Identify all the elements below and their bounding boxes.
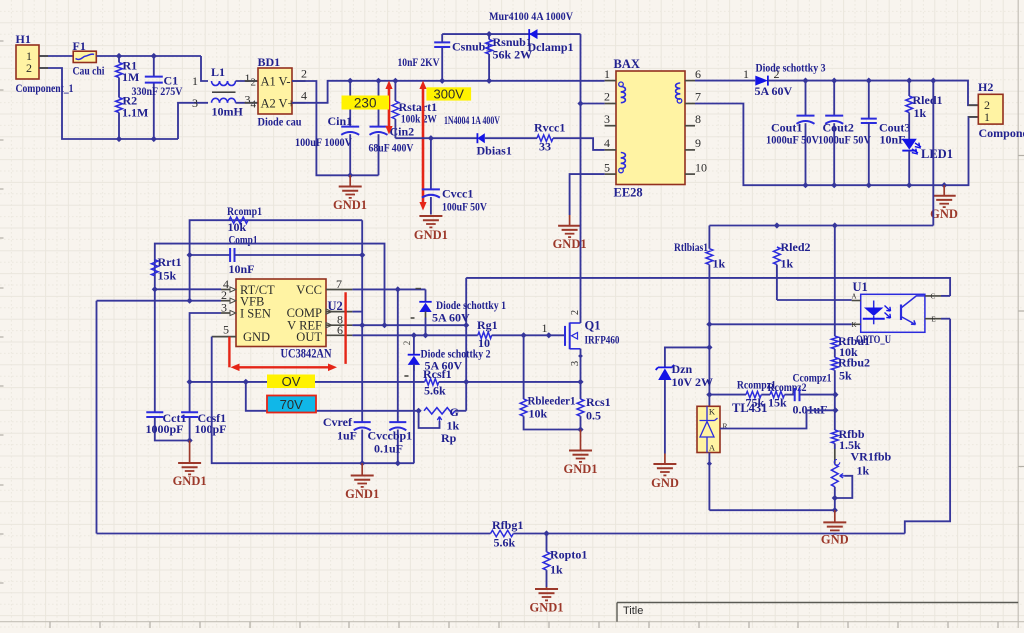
capacitor Comp1	[190, 254, 231, 256]
BAX secondary winding	[676, 83, 681, 88]
ic ground rail	[212, 337, 414, 464]
diode schottky 3	[755, 76, 768, 86]
ground GND at Dzn	[664, 454, 666, 465]
capacitor Cct1	[146, 411, 163, 413]
wire source to sense	[580, 349, 582, 382]
junction Dzn branch	[706, 344, 712, 350]
svg-text:56k 2W: 56k 2W	[493, 48, 533, 62]
svg-text:Cvccbp1: Cvccbp1	[368, 429, 413, 443]
junction snubber left	[439, 78, 445, 84]
red annotation vertical at GND pin	[228, 337, 230, 368]
resistor Rstart1	[394, 81, 396, 101]
capacitor Cin1	[349, 81, 351, 126]
svg-text:Rfbu2: Rfbu2	[838, 356, 870, 370]
wire H1 pin1 to fuse F1	[39, 55, 73, 57]
resistor Rfbg1	[491, 530, 514, 536]
svg-text:Ropto1: Ropto1	[550, 548, 587, 562]
svg-text:EE28: EE28	[614, 186, 643, 200]
svg-text:H1: H1	[16, 32, 31, 46]
svg-text:1uF: 1uF	[337, 429, 357, 443]
svg-text:230: 230	[354, 96, 377, 111]
svg-text:5: 5	[604, 161, 610, 175]
resistor Rbleeder1	[523, 335, 525, 399]
wire drain	[580, 104, 582, 324]
junction Rsnub1 bottom	[486, 78, 492, 84]
svg-text:Component_1: Component_1	[16, 81, 74, 95]
vref pin line	[352, 324, 466, 326]
junction Comp1 right	[359, 252, 365, 258]
svg-text:1000pF: 1000pF	[146, 422, 184, 436]
UC3842 pin stubs and arrows	[212, 287, 353, 337]
fuse F1	[73, 51, 96, 62]
svg-text:10mH: 10mH	[212, 105, 244, 119]
diode Dbias1	[477, 133, 484, 143]
svg-text:4: 4	[604, 136, 610, 150]
resistor Rg1	[478, 332, 492, 338]
resistor Rfbu1	[831, 336, 838, 349]
wire VREF to opto collector	[466, 278, 950, 296]
svg-text:GND1: GND1	[173, 474, 207, 488]
junction VR1fbb wiper	[832, 495, 838, 501]
svg-text:Diode cau: Diode cau	[258, 115, 302, 129]
svg-text:3: 3	[221, 301, 227, 315]
svg-text:Dclamp1: Dclamp1	[528, 40, 574, 54]
junction Cvccbp1 top	[395, 286, 401, 292]
svg-text:2: 2	[604, 90, 610, 104]
svg-text:Diode schottky 3: Diode schottky 3	[756, 61, 826, 75]
junction Rled2 top	[774, 222, 780, 228]
compensation Rcomp1 line	[190, 220, 363, 255]
junction source sense	[577, 379, 583, 385]
current sense line	[190, 381, 425, 383]
resistor Rfbb	[831, 430, 838, 443]
svg-text:75k: 75k	[746, 396, 765, 410]
svg-text:GND1: GND1	[345, 487, 379, 501]
svg-text:2: 2	[301, 67, 307, 81]
junction Ropto1 top	[543, 530, 549, 536]
resistor R1	[118, 56, 120, 63]
wire opto emitter to feedback rail	[905, 319, 950, 534]
svg-text:GND1: GND1	[333, 198, 367, 212]
svg-text:0.5: 0.5	[586, 409, 601, 423]
svg-text:Cvref: Cvref	[323, 415, 353, 429]
svg-text:1k: 1k	[713, 257, 726, 271]
svg-text:Rtlbias1: Rtlbias1	[674, 240, 708, 254]
comp pin wire	[352, 311, 362, 313]
svg-text:VCC: VCC	[296, 283, 322, 297]
BAX aux winding bottom	[621, 153, 626, 158]
feedback divider chain	[834, 226, 836, 337]
svg-text:2: 2	[570, 310, 581, 315]
capacitor Cout3	[868, 81, 870, 118]
svg-text:100pF: 100pF	[195, 422, 227, 436]
svg-text:OPTO_U: OPTO_U	[856, 332, 891, 346]
svg-text:L1: L1	[211, 65, 225, 79]
junction vref at dist line	[381, 322, 387, 328]
svg-text:U2: U2	[328, 299, 343, 313]
wire Rrt1 to Cct1	[154, 289, 156, 411]
svg-text:6: 6	[695, 67, 701, 81]
highlight box 230	[342, 96, 390, 110]
resistor Rcs1	[580, 382, 582, 399]
snubber capacitor Csnub1	[441, 47, 443, 81]
wire I SEN drop	[190, 313, 221, 382]
svg-text:8: 8	[695, 112, 701, 126]
svg-text:A: A	[709, 443, 716, 453]
junction Comp1 left	[187, 252, 193, 258]
ground GND1 near BAX	[569, 215, 571, 226]
junction vref at comp vertical	[359, 322, 365, 328]
connector H2	[978, 94, 1003, 124]
shunt regulator TL431	[697, 406, 720, 452]
svg-text:Rvcc1: Rvcc1	[534, 121, 565, 135]
junction at GND riser	[832, 507, 838, 513]
compensation line	[709, 394, 746, 396]
svg-text:Cin1: Cin1	[328, 114, 353, 128]
svg-text:1: 1	[743, 67, 749, 81]
svg-text:7: 7	[336, 277, 342, 291]
resistor Rfbu2	[834, 349, 836, 358]
svg-text:IRFP460: IRFP460	[585, 333, 620, 347]
svg-text:1: 1	[192, 74, 198, 88]
resistor Rsnub1	[488, 34, 490, 39]
wire BD1 V- to primary return	[292, 80, 306, 82]
svg-text:V-: V-	[279, 75, 291, 89]
capacitor C1	[153, 56, 155, 76]
wire comp left to VFB	[189, 255, 191, 301]
svg-text:3: 3	[604, 112, 610, 126]
svg-text:100uF 50V: 100uF 50V	[442, 200, 487, 214]
junction OV tap	[243, 379, 249, 385]
svg-text:K: K	[709, 407, 716, 417]
svg-text:Rcs1: Rcs1	[586, 395, 611, 409]
svg-text:10: 10	[695, 161, 707, 175]
svg-text:100uF 1000V: 100uF 1000V	[295, 135, 352, 149]
junction at C1 top	[151, 53, 157, 59]
wire down to L1 pin1	[201, 56, 208, 81]
svg-text:A1: A1	[261, 75, 276, 89]
junction Cin2 top	[375, 78, 381, 84]
out gate line	[352, 334, 477, 336]
junction comp right	[832, 392, 838, 398]
resistor Rrt1	[151, 260, 158, 276]
wire between Rcompz1 Rcompz2	[761, 394, 770, 396]
gray mark near D2	[404, 375, 408, 377]
svg-text:Rfbg1: Rfbg1	[492, 518, 523, 532]
svg-text:Component_1: Component_1	[979, 126, 1024, 140]
transformer BAX	[616, 71, 685, 185]
wire Rled2 to opto anode	[777, 299, 852, 301]
junction schottky2 top	[411, 332, 417, 338]
wire down to TL431 K	[708, 324, 710, 406]
svg-text:1k: 1k	[550, 563, 563, 577]
svg-text:1M: 1M	[122, 70, 139, 84]
measure arrow 230 red	[388, 85, 391, 131]
capacitor Cvref	[354, 421, 371, 423]
feedback rail long wire	[97, 533, 491, 535]
ground GND1 at Cvref	[361, 463, 363, 475]
ground GND1 at Cvcc1	[419, 215, 442, 217]
potentiometer VR1fbb	[834, 449, 836, 465]
svg-text:LED1: LED1	[921, 147, 953, 161]
wire to BAX pin2	[581, 103, 605, 105]
svg-text:4: 4	[301, 89, 307, 103]
svg-text:1: 1	[542, 321, 548, 335]
svg-text:5.6k: 5.6k	[494, 536, 516, 550]
capacitor Ccsf1	[189, 382, 191, 412]
resistor R2	[116, 98, 123, 113]
svg-text:H2: H2	[978, 80, 993, 94]
svg-text:15k: 15k	[768, 396, 787, 410]
junction Cin1 top	[347, 78, 353, 84]
svg-text:BD1: BD1	[258, 55, 281, 69]
ground GND1 at Cin1	[349, 175, 351, 186]
svg-text:1000uF 50V: 1000uF 50V	[818, 133, 871, 147]
svg-text:70V: 70V	[280, 397, 303, 412]
svg-text:VR1fbb: VR1fbb	[851, 450, 892, 464]
svg-text:K: K	[852, 321, 857, 329]
svg-text:OUT: OUT	[296, 330, 322, 344]
junction drain branch	[577, 100, 583, 106]
svg-text:OV: OV	[282, 374, 301, 389]
junction Rcsf right	[463, 379, 469, 385]
svg-text:7: 7	[695, 90, 701, 104]
wire RT/CT	[155, 288, 221, 290]
red annotation arrow horizontal	[235, 366, 333, 368]
output top rail	[768, 81, 978, 106]
svg-text:5k: 5k	[839, 369, 852, 383]
junction VFB	[187, 298, 193, 304]
svg-text:Cau chi: Cau chi	[73, 64, 106, 78]
capacitor Cvccbp1	[397, 289, 399, 421]
wire BAX pin5 to GND1	[570, 174, 605, 215]
diode schottky 1	[425, 289, 427, 301]
svg-text:Mur4100 4A 1000V: Mur4100 4A 1000V	[489, 9, 573, 23]
junction Cvref bottom	[359, 460, 365, 466]
junction Cvccbp1 bottom	[395, 460, 401, 466]
resistor Rled2	[774, 247, 781, 265]
feedback rail right part	[513, 533, 904, 535]
svg-text:6: 6	[337, 323, 343, 337]
ground GND1 at Cct1	[189, 441, 191, 464]
svg-text:1N4004 1A 400V: 1N4004 1A 400V	[444, 113, 500, 127]
svg-text:Q1: Q1	[585, 319, 601, 333]
red annotation vertical right	[344, 292, 346, 364]
svg-text:Cin2: Cin2	[390, 125, 415, 139]
junction RT/CT at Rrt1	[152, 286, 158, 292]
wire divider mid	[834, 395, 836, 430]
wire TL431 ref	[720, 410, 835, 428]
junction Cvcc1 top	[428, 135, 434, 141]
wire TL431 cathode line to opto	[709, 323, 851, 325]
inductor L1 common-mode choke	[212, 81, 220, 86]
title block	[617, 602, 1018, 604]
svg-text:2: 2	[26, 61, 32, 75]
capacitor Ccompz1	[785, 394, 795, 396]
junction R2 bottom	[116, 136, 122, 142]
svg-text:Dzn: Dzn	[672, 362, 693, 376]
resistor Rled1	[908, 81, 910, 96]
svg-text:Rp: Rp	[441, 431, 457, 445]
diode Dclamp1	[529, 29, 537, 39]
svg-text:Title: Title	[623, 605, 643, 617]
wire BAX pin7 to output return rail	[695, 104, 978, 186]
wire Dbias1 to Rvcc1	[485, 137, 537, 139]
junction gate	[546, 332, 552, 338]
junction Rsnub1 top	[486, 31, 492, 37]
vref injection vertical	[465, 278, 467, 411]
connector H1	[16, 45, 39, 79]
BAX pin stubs right	[685, 80, 695, 82]
svg-text:1k: 1k	[781, 257, 794, 271]
snubber top rail	[442, 33, 580, 35]
junction Rfbu1 top	[832, 222, 838, 228]
wire Rcsf1 to source node	[439, 381, 581, 383]
junction vref line right	[463, 322, 469, 328]
svg-text:100k 2W: 100k 2W	[401, 112, 437, 126]
optocoupler U1	[861, 294, 925, 332]
junction filter bottom	[187, 437, 193, 443]
svg-text:GND: GND	[930, 207, 958, 221]
svg-text:1: 1	[984, 110, 990, 124]
capacitor Cout2	[833, 81, 835, 115]
wire F1 to node, input top rail	[96, 55, 201, 57]
wire L1 pin4 to BD1 A2	[236, 102, 259, 104]
bridge rectifier BD1	[258, 68, 292, 114]
capacitor Cout1	[805, 81, 807, 115]
svg-text:9: 9	[695, 136, 701, 150]
capacitor Cin2	[378, 81, 380, 126]
svg-text:GND: GND	[243, 330, 270, 344]
BAX primary winding top	[619, 82, 624, 87]
svg-text:1k: 1k	[857, 464, 870, 478]
svg-text:300V: 300V	[434, 87, 465, 102]
svg-text:1000uF 50V: 1000uF 50V	[766, 133, 819, 147]
measure arrow 300V red	[422, 85, 425, 206]
svg-text:GND1: GND1	[553, 237, 587, 251]
comp vertical to Cvref	[361, 220, 363, 421]
gray mark near D1	[411, 317, 415, 319]
svg-text:F1: F1	[73, 39, 86, 53]
zener diode Dzn	[665, 347, 710, 367]
svg-text:GND1: GND1	[563, 462, 597, 476]
svg-text:4: 4	[251, 99, 257, 111]
wire Rg1 to gate	[492, 334, 565, 336]
svg-text:I SEN: I SEN	[240, 307, 271, 321]
junction comp left	[706, 392, 712, 398]
svg-text:Rrt1: Rrt1	[158, 255, 182, 269]
junction Rbleeder top	[521, 332, 527, 338]
ground GND secondary at output	[943, 185, 945, 196]
wire clamp to drain node	[580, 34, 582, 103]
svg-text:Rbleeder1: Rbleeder1	[528, 394, 576, 408]
ov to 70v drop	[246, 382, 419, 411]
svg-text:15k: 15k	[158, 269, 177, 283]
controller U2 UC3842	[236, 279, 326, 347]
potentiometer Rp	[424, 408, 455, 414]
svg-text:10nF: 10nF	[880, 133, 906, 147]
svg-text:Dbias1: Dbias1	[477, 144, 512, 158]
resistor Rtlbias1	[708, 226, 710, 249]
svg-text:Rcomp1: Rcomp1	[227, 204, 262, 218]
svg-text:0.1uF: 0.1uF	[374, 442, 403, 456]
wire bottom rail to L1 pin3	[178, 103, 208, 139]
svg-text:A2: A2	[261, 97, 276, 111]
svg-text:U1: U1	[853, 280, 868, 294]
junction C1 bottom	[151, 136, 157, 142]
wire H2 stubs	[969, 104, 979, 106]
resistor Ropto1	[546, 534, 548, 552]
svg-text:5A 60V: 5A 60V	[755, 84, 793, 98]
junction I SEN filter	[187, 379, 193, 385]
junction Cin1 bottom	[347, 172, 353, 178]
junction Rstart1 top	[392, 78, 398, 84]
svg-text:G: G	[450, 405, 459, 419]
highlight box 300V	[426, 87, 471, 100]
wire schottky2 to gnd rail	[413, 411, 415, 463]
wire L1 pin2 to BD1 A1	[236, 80, 259, 82]
svg-text:3: 3	[570, 361, 581, 366]
vcc rail from Rstart1	[395, 137, 477, 139]
transistor Q1 IRFP460	[564, 326, 566, 346]
svg-text:5: 5	[223, 323, 229, 337]
LED LED1	[902, 139, 917, 150]
svg-text:3: 3	[192, 96, 198, 110]
resistor Rcompz1	[746, 391, 761, 397]
svg-text:2: 2	[402, 341, 412, 346]
wire VFB to feedback rail	[96, 301, 98, 534]
svg-text:10nF: 10nF	[229, 262, 255, 276]
resistor Rcsf1	[425, 379, 439, 385]
wire TL431 anode to ground rail	[708, 453, 710, 511]
resistor Rcompz2	[770, 391, 785, 397]
svg-text:UC3842AN: UC3842AN	[281, 347, 332, 361]
svg-text:GND1: GND1	[529, 601, 563, 615]
svg-text:Csnub1: Csnub1	[452, 40, 491, 54]
capacitor Cvcc1	[430, 138, 432, 189]
svg-text:GND: GND	[651, 476, 679, 490]
highlight box OV	[267, 375, 315, 389]
svg-text:10nF 2KV: 10nF 2KV	[398, 55, 440, 69]
junction ref join	[832, 407, 838, 413]
junction schottky1 bottom	[422, 332, 428, 338]
svg-text:10V 2W: 10V 2W	[672, 375, 713, 389]
wire VFB line	[97, 300, 222, 302]
svg-text:5A 60V: 5A 60V	[432, 311, 470, 325]
junction at R1 top	[116, 53, 122, 59]
svg-text:C: C	[931, 293, 936, 301]
junction Rcs1 bottom	[577, 426, 583, 432]
svg-text:68uF 400V: 68uF 400V	[369, 141, 414, 155]
resistor Rcomp1	[229, 217, 248, 223]
junction Rtlbias1 bottom	[706, 321, 712, 327]
vcc line	[352, 288, 425, 290]
vref distribution line	[155, 244, 385, 326]
ground GND1 at Ropto1	[546, 587, 548, 589]
svg-text:Ccompz1: Ccompz1	[793, 371, 832, 385]
svg-text:GND1: GND1	[414, 228, 448, 242]
svg-text:5.6k: 5.6k	[424, 384, 446, 398]
highlight box 70V	[267, 396, 316, 413]
diode schottky 2	[413, 335, 415, 354]
wire H1 pin2 to bottom rail	[39, 68, 178, 139]
resistor Rvcc1	[537, 135, 553, 141]
wire Rvcc1 to BAX pin4	[553, 138, 605, 150]
feedback top rail	[709, 225, 933, 227]
svg-text:Rled1: Rled1	[913, 93, 943, 107]
svg-text:1k: 1k	[914, 106, 927, 120]
svg-text:2: 2	[251, 77, 257, 89]
